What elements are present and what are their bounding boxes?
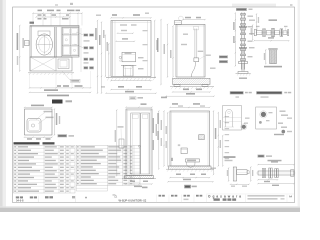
base plan: outline square <box>25 109 53 135</box>
interior elevation: bench/shelf ledge <box>186 159 200 162</box>
plan view: tank right compartment boxes <box>58 59 69 69</box>
small part: body <box>270 50 277 64</box>
door view: outline <box>126 109 152 176</box>
small part: left dim <box>265 50 267 64</box>
pipe assembly: end fitting <box>254 30 256 36</box>
plan view: leader lines to chips <box>76 32 84 35</box>
side view: left vertical dim lines and rotated texts <box>157 38 159 52</box>
door view: left fixture box <box>119 139 124 148</box>
plan view: partition wall (hatched) <box>54 27 56 57</box>
small part: top cap <box>268 48 277 50</box>
plan view: bottom leader chip <box>71 79 81 82</box>
title block: company name kanji <box>214 198 220 200</box>
interior elevation: base and ground hatch <box>169 166 212 169</box>
front section: ground line and hatch <box>106 77 156 79</box>
spud pipe assembly: pipe body <box>258 171 294 175</box>
fixture details: dark mark bottom right <box>282 130 286 134</box>
plan view: left vertical dimension line <box>19 26 21 72</box>
title block: stamp cell sub-mark <box>184 199 189 201</box>
base plan: small circle inside <box>31 124 34 127</box>
scan margin left edge <box>0 0 3 212</box>
plan view: extension lines from top dims <box>32 13 34 25</box>
fixture detail B: dark knob large <box>261 112 266 117</box>
pipe detail: small circles on pipe <box>242 31 244 33</box>
door view: handle <box>138 145 140 147</box>
front section: top dimension line <box>111 17 151 19</box>
front section: main outline <box>111 21 151 77</box>
spud pipe assembly: flange cluster <box>262 169 263 178</box>
fixture details: right leader notes <box>287 118 292 119</box>
pipe detail: narrow stem <box>241 64 243 72</box>
scan margin bottom edge <box>0 206 300 207</box>
spud pipe assembly: centerline <box>256 172 296 174</box>
interior elevation: outline <box>170 111 210 166</box>
interior elevation: left rotated texts and dim lines <box>153 118 154 133</box>
texts below section chips <box>236 96 240 97</box>
side view: interior top detail <box>194 26 199 30</box>
plan view: top dimension line <box>33 12 82 14</box>
door view: bottom dims <box>130 181 135 183</box>
interior elevation: bottom dims <box>176 174 181 176</box>
parts table header (bold) <box>14 142 40 144</box>
section header chip B <box>256 91 282 94</box>
door view: door panels <box>131 113 140 174</box>
side view: flush valve box <box>194 58 199 62</box>
fixture detail A: outline <box>223 106 242 130</box>
svg-text:W-BJP-KUMITORI-02: W-BJP-KUMITORI-02 <box>119 198 147 202</box>
side view: main outline <box>176 24 205 77</box>
side view: base feet <box>174 85 180 87</box>
bottom strip divider lines <box>37 196 39 203</box>
fixture detail A: horizontal lines <box>223 117 242 119</box>
pipe detail: base plate and ground hatch <box>238 72 248 74</box>
spud pipe assembly: caption text <box>268 160 282 162</box>
side view: top dim texts <box>185 17 191 19</box>
base plan: top dimension line <box>25 106 53 108</box>
front section: inside dim line upper <box>118 32 134 34</box>
side view: pipe S-curve to floor <box>191 62 195 77</box>
pipe detail: mid flange plate <box>239 62 248 64</box>
side view: scale label under view <box>161 97 167 99</box>
plan view: toilet bowl cross lines <box>43 35 45 55</box>
plan view: door panel 2x2 grid <box>62 28 78 56</box>
pipe detail: wider flange plates <box>239 26 246 27</box>
pipe detail: header chip <box>236 8 247 11</box>
title block: top rule <box>206 193 294 195</box>
front section: right vertical dim <box>154 21 156 78</box>
faucet detail: left vertical dim <box>228 168 230 181</box>
front section: scale chip <box>130 97 137 100</box>
interior elevation: top dims <box>172 103 178 105</box>
left parts table grid <box>14 145 76 193</box>
plan view: door panel inner frames <box>63 29 69 34</box>
interior elevation: left wall tick <box>171 158 173 161</box>
door view: top vent rects <box>133 114 139 118</box>
front section: interior dimension <box>122 38 128 39</box>
interior elevation: extra top dim texts <box>178 105 183 106</box>
base plan: leader curves and texts <box>36 113 45 121</box>
front section: cistern box <box>122 52 136 62</box>
base plan: inner rounded square (tank opening) <box>27 119 41 133</box>
plan view: bottom dimension line 1 <box>30 87 91 89</box>
plan view: door frame line <box>60 27 62 57</box>
plan view: toilet bowl inner ellipse <box>39 37 50 53</box>
plan view: toilet bowl outer ellipse <box>36 34 52 55</box>
front section: left dim column rotated texts <box>95 28 97 40</box>
small part: caption <box>264 66 282 68</box>
scan margin right edge <box>298 0 300 206</box>
plan view: left small fixture box <box>25 41 30 46</box>
base plan: top dimension text <box>31 105 44 107</box>
door view: panel seam lines <box>132 113 148 174</box>
plan view: top dimension texts row1 <box>38 10 43 12</box>
spud pipe assembly: header chip <box>258 155 265 158</box>
plan view: tank bottom ground hatch <box>28 72 74 74</box>
faucet detail: spout <box>237 170 248 175</box>
bottom-left approval texts <box>16 196 19 198</box>
side view: ground hatch <box>170 86 214 88</box>
front section: left vertical dimension lines <box>97 21 99 94</box>
front section: bottom dimension texts and lines <box>118 86 124 88</box>
pipe detail: right leader texts <box>248 16 254 17</box>
faucet detail: flange plate <box>233 167 236 181</box>
pipe assembly: caption text <box>269 19 278 21</box>
front section: toilet pedestal <box>121 64 136 66</box>
side view: interior dim texts <box>198 51 204 52</box>
right table empty extension rows <box>75 186 77 192</box>
pipe detail: right small vertical dim <box>256 14 258 30</box>
faucet detail: bottom dim <box>231 183 250 185</box>
right parts table cell texts <box>77 146 133 184</box>
title block: address lines <box>248 195 285 196</box>
front section: flush valve circles <box>119 56 121 58</box>
spud pipe assembly: top dim <box>258 164 294 166</box>
right parts table grid <box>76 145 140 185</box>
title block: vertical dividers <box>156 195 158 203</box>
plan view: floor drain small circle <box>48 52 50 54</box>
base plan: scale chip <box>58 134 68 137</box>
base plan: right vertical dim <box>53 109 55 135</box>
front section: top dimension texts <box>112 14 117 16</box>
pipe detail: vertical pipe body <box>240 13 242 70</box>
plan view: bottom dimension line 2 <box>30 91 91 93</box>
pipe assembly: left vertical dim <box>252 25 254 40</box>
plan view: small texts near chips <box>84 40 90 41</box>
front section: right inner edge texts <box>143 30 148 31</box>
pipe detail: pipe couplings <box>241 14 246 16</box>
fixture detail B: outline <box>256 107 277 129</box>
fixture details: texts between panels <box>245 118 250 119</box>
interior elevation: scale chip <box>184 185 190 188</box>
fixture details: caption below <box>274 134 284 135</box>
drawing number triangle mark <box>115 195 117 197</box>
pipe assembly: centerline <box>256 32 290 34</box>
interior elevation: right shelf box <box>199 135 205 140</box>
side view: right leader texts <box>206 55 211 56</box>
svg-text:Ogasawara: Ogasawara <box>208 195 243 199</box>
spud pipe assembly: bottom dims <box>258 179 278 181</box>
drawing frame border <box>13 7 295 203</box>
plan view: door panel latch circles <box>65 39 67 41</box>
front section: interior leader texts <box>138 57 144 58</box>
side view: bottom dims <box>183 89 189 91</box>
front section: under-box dim line <box>111 80 151 82</box>
side view: roof vent box (left) <box>174 21 181 25</box>
pipe assembly: small top marks <box>256 26 260 27</box>
plan view: left wall inner line <box>30 26 32 58</box>
door view: scale text <box>142 187 148 189</box>
plan view: bottom overall dimension text <box>47 95 69 97</box>
fixture detail A: arch shape <box>226 110 233 128</box>
pipe assembly: pipe body segments <box>257 31 263 35</box>
pipe assembly: flange bars <box>263 29 264 36</box>
plan view: bottom dimension texts row1 <box>57 85 61 87</box>
plan view: right leader chip pairs <box>84 34 89 37</box>
pipe detail: left dimension line <box>234 13 236 66</box>
plan view: left rotated dimension text <box>17 33 19 50</box>
interior elevation: bowl below ledge <box>186 162 195 167</box>
plan view: bottom dimension texts row2 <box>44 89 58 91</box>
interior elevation: right tick texts <box>225 116 230 117</box>
interior elevation: bottom small text left <box>142 187 148 189</box>
door view: left vertical dim <box>116 110 118 176</box>
side view: base skid <box>173 78 210 84</box>
plan view: entrance label <box>30 22 35 24</box>
fixture detail B: small dark knob <box>259 121 262 124</box>
faucet detail: right vertical dim <box>250 167 252 181</box>
faucet detail: caption <box>224 156 236 158</box>
section header chip A <box>230 91 244 94</box>
interior elevation: right dim chains <box>213 111 215 175</box>
pipe assembly: bottom dimension <box>254 40 289 42</box>
fixture detail A: dark knob <box>242 125 246 129</box>
plan view: right extension line <box>80 28 82 72</box>
door view: base and ground <box>125 176 154 179</box>
left parts table cell texts <box>14 146 74 192</box>
fixture detail B: small marks <box>269 112 273 113</box>
door view: top dimension <box>141 103 147 105</box>
plan view: toilet tank rect <box>38 31 50 36</box>
front section: inside top texts <box>120 24 127 25</box>
side view: interior flush pipe <box>194 29 196 59</box>
svg-text:04-6-8: 04-6-8 <box>16 199 24 203</box>
interior elevation: small wall item <box>178 144 180 146</box>
side view: lifting ring circle <box>179 16 184 21</box>
plan view: secondary dimension line <box>36 16 70 18</box>
plan view: tank below room <box>30 57 72 71</box>
plan view: title 平面図 <box>52 100 63 104</box>
side view: right chips <box>219 55 228 58</box>
plan view: top dimension texts row2 <box>38 14 42 16</box>
interior elevation: cistern box <box>181 148 187 154</box>
title block: stamp cell labels <box>159 195 162 197</box>
plan view: room outline <box>30 26 79 58</box>
faint stamps above frame <box>55 4 58 5</box>
base plan: bottom dimension line <box>25 136 53 138</box>
plan view: tank cross diagonals <box>30 57 56 71</box>
